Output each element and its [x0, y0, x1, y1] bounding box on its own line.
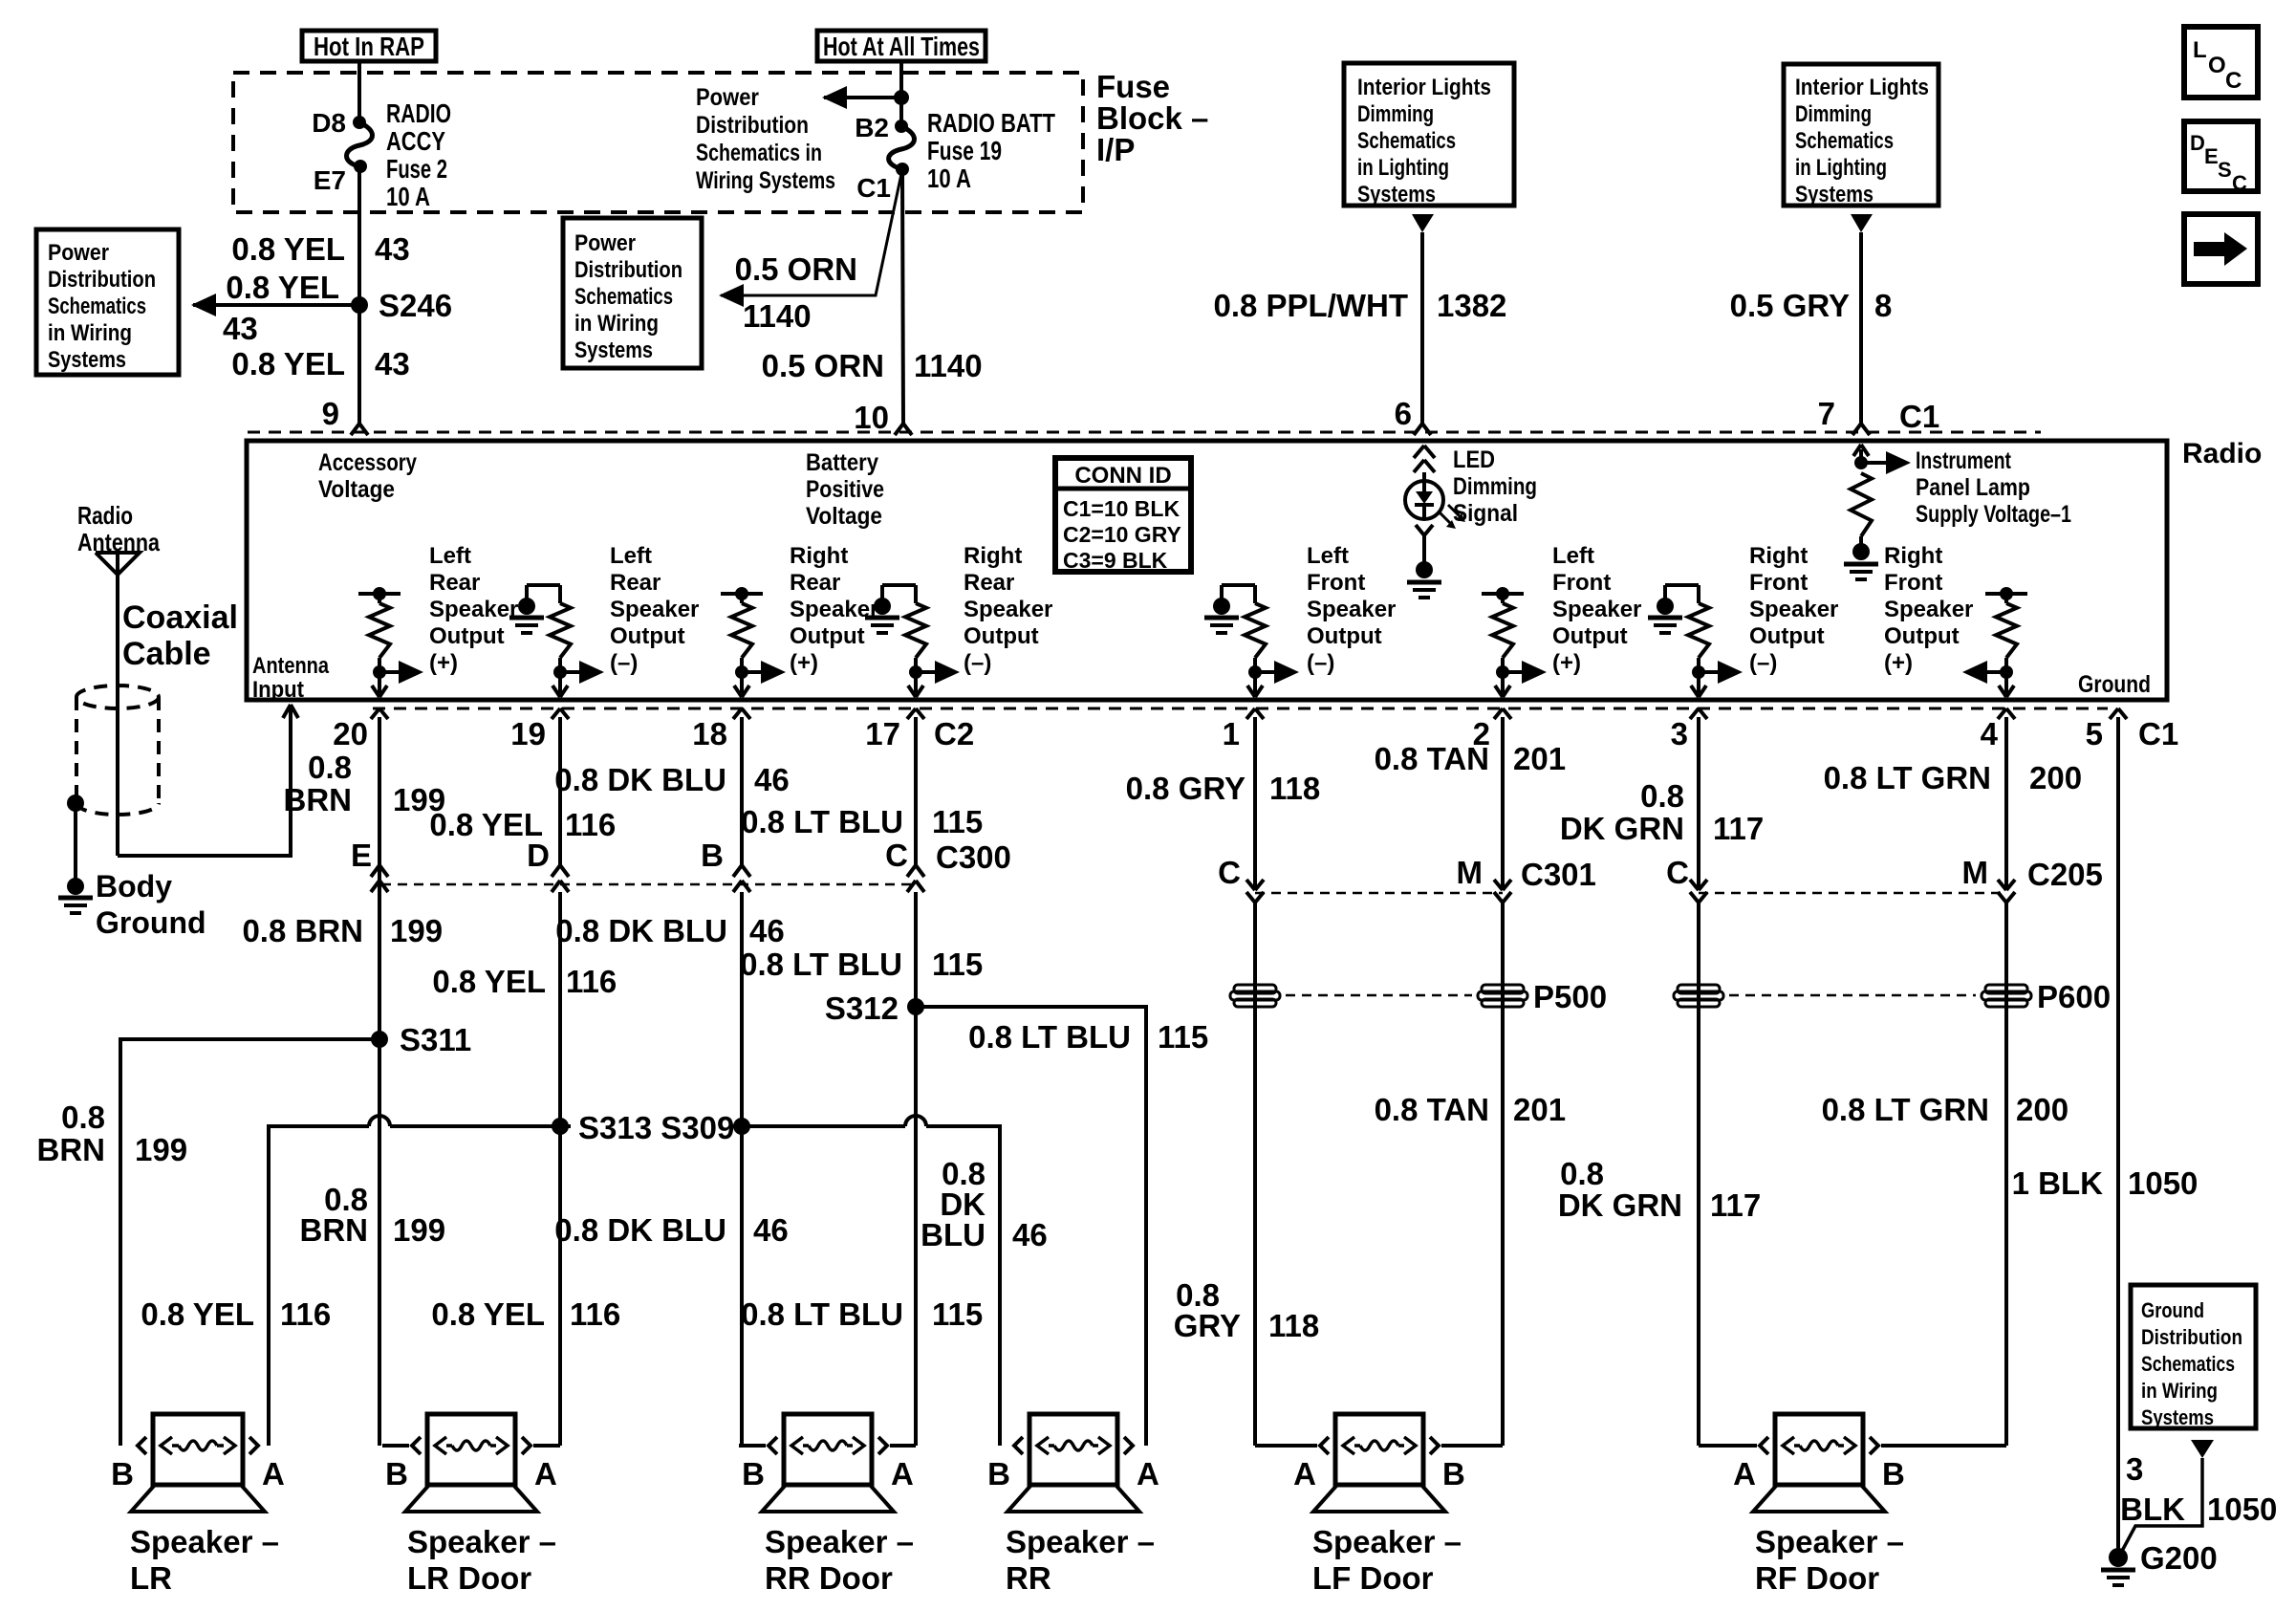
svg-text:Distribution: Distribution — [2141, 1325, 2242, 1349]
arrowhead 0.5 ORN branch — [719, 284, 744, 307]
svg-text:10 A: 10 A — [927, 163, 971, 193]
svg-text:(+): (+) — [790, 650, 818, 676]
wire S311 branch to speaker LR B — [120, 1039, 379, 1446]
svg-text:Fuse 2: Fuse 2 — [386, 154, 447, 184]
svg-text:0.8 GRY: 0.8 GRY — [1126, 771, 1245, 806]
svg-text:Front: Front — [1307, 570, 1365, 596]
svg-text:C1: C1 — [1899, 399, 1939, 434]
svg-text:0.8 DK BLU: 0.8 DK BLU — [555, 913, 727, 948]
svg-text:RF Door: RF Door — [1755, 1560, 1879, 1596]
svg-text:1: 1 — [1223, 716, 1240, 751]
svg-text:0.8 DK BLU: 0.8 DK BLU — [554, 1212, 726, 1248]
speaker RR — [1014, 1437, 1023, 1454]
svg-text:BRN: BRN — [284, 782, 353, 817]
grommet P500 dashed link — [1286, 994, 1472, 997]
arrowhead power distribution top — [822, 86, 847, 109]
svg-text:Output: Output — [429, 623, 505, 649]
resistor right rear speaker output + (pin 18) — [721, 592, 763, 596]
ground G200 symbol — [2101, 1568, 2135, 1573]
svg-text:Speaker: Speaker — [964, 597, 1052, 622]
radio bottom dashed connector line — [373, 708, 2108, 710]
svg-text:C1=10 BLK: C1=10 BLK — [1063, 496, 1180, 521]
svg-text:0.8 LT GRN: 0.8 LT GRN — [1824, 760, 1991, 795]
pin 6 connector chevron — [1414, 424, 1422, 435]
svg-text:RADIO BATT: RADIO BATT — [927, 108, 1055, 138]
body ground dot — [67, 878, 84, 895]
svg-text:115: 115 — [1158, 1019, 1208, 1055]
pin 7 connector chevron — [1852, 424, 1861, 435]
svg-text:Dimming: Dimming — [1357, 101, 1434, 127]
svg-text:E: E — [351, 838, 372, 873]
speaker RF Door — [1699, 1444, 1757, 1448]
svg-text:46: 46 — [1012, 1217, 1048, 1252]
svg-text:DK GRN: DK GRN — [1560, 811, 1684, 846]
connector C300 chevrons at terminal D — [552, 865, 560, 877]
svg-text:0.8 LT GRN: 0.8 LT GRN — [1822, 1092, 1989, 1127]
fuse F2 RADIO ACCY — [347, 122, 373, 166]
label box "Hot In RAP" — [302, 31, 436, 61]
svg-text:1140: 1140 — [914, 348, 983, 383]
svg-text:Rear: Rear — [790, 570, 840, 596]
svg-text:Output: Output — [1552, 623, 1628, 649]
svg-text:C: C — [885, 838, 908, 873]
legend box LOC — [2184, 27, 2258, 98]
svg-text:43: 43 — [375, 346, 410, 381]
svg-text:LR: LR — [130, 1560, 172, 1596]
svg-text:B: B — [385, 1456, 408, 1491]
wire pin 3 column (0.8 DK GRN 117) — [1697, 723, 1700, 890]
svg-text:Fuse: Fuse — [1096, 69, 1170, 104]
wire pin 17 column (0.8 LT BLU 115) — [914, 723, 918, 865]
svg-text:115: 115 — [932, 804, 983, 839]
pin 4 connector chevron (bottom) — [1998, 708, 2006, 719]
svg-text:43: 43 — [223, 311, 258, 346]
svg-text:116: 116 — [565, 807, 616, 842]
instrument panel lamp wire up arrow — [1859, 449, 1863, 463]
svg-text:C2: C2 — [934, 716, 974, 751]
splice S246 — [351, 296, 368, 314]
svg-text:A: A — [1733, 1456, 1756, 1491]
svg-text:Left: Left — [1552, 543, 1594, 569]
svg-text:C3=9 BLK: C3=9 BLK — [1063, 548, 1168, 573]
connector C300 chevrons at terminal E — [371, 865, 379, 877]
connector C300 dashed line — [381, 883, 916, 886]
speaker RR Door — [739, 1444, 766, 1448]
svg-text:0.8 YEL: 0.8 YEL — [431, 1296, 545, 1332]
box Ground Distribution Schematics in Wiring Systems — [2131, 1285, 2256, 1428]
svg-text:Rear: Rear — [610, 570, 661, 596]
svg-text:in Wiring: in Wiring — [2141, 1379, 2218, 1403]
svg-text:200: 200 — [2029, 760, 2082, 795]
instrument ground dot — [1859, 536, 1863, 545]
grommet P500 right (pin2) — [1482, 985, 1524, 993]
svg-text:116: 116 — [280, 1296, 331, 1332]
resistor right front speaker output - (pin 3) — [1697, 585, 1700, 603]
svg-text:P600: P600 — [2037, 979, 2111, 1014]
pin 2 connector chevron (bottom) — [1494, 708, 1503, 719]
svg-text:BLU: BLU — [921, 1217, 986, 1252]
wire pin 20 column (0.8 BRN 199) — [378, 723, 381, 1446]
svg-text:Cable: Cable — [122, 636, 211, 672]
svg-text:Speaker: Speaker — [429, 597, 518, 622]
node B2 — [895, 120, 908, 133]
svg-text:S311: S311 — [400, 1022, 471, 1057]
pin 20 connector chevron (bottom) — [371, 708, 379, 719]
svg-text:Radio: Radio — [2182, 438, 2262, 469]
svg-text:0.8 TAN: 0.8 TAN — [1375, 741, 1489, 776]
resistor instrument panel lamp — [1851, 473, 1872, 536]
svg-text:Interior Lights: Interior Lights — [1795, 75, 1929, 100]
grommet P500 left (pin1) — [1234, 985, 1276, 993]
svg-text:Voltage: Voltage — [806, 503, 882, 530]
svg-text:Hot In RAP: Hot In RAP — [314, 32, 424, 61]
svg-text:Schematics: Schematics — [574, 284, 673, 310]
svg-text:46: 46 — [754, 762, 790, 797]
svg-text:O: O — [2208, 53, 2226, 78]
pin 10 connector chevron — [895, 424, 903, 435]
svg-text:E: E — [2204, 144, 2219, 168]
svg-text:C301: C301 — [1521, 857, 1596, 892]
svg-text:Panel Lamp: Panel Lamp — [1916, 474, 2030, 501]
splice S309 — [733, 1118, 750, 1135]
svg-text:Speaker –: Speaker – — [130, 1524, 279, 1559]
svg-text:(–): (–) — [1307, 650, 1334, 676]
svg-text:Output: Output — [1307, 623, 1382, 649]
svg-text:M: M — [1457, 855, 1484, 890]
svg-text:Distribution: Distribution — [48, 267, 156, 293]
svg-text:Voltage: Voltage — [318, 476, 395, 503]
svg-text:in Lighting: in Lighting — [1357, 155, 1449, 181]
svg-text:Output: Output — [1749, 623, 1825, 649]
svg-text:1050: 1050 — [2128, 1165, 2198, 1201]
fuse block dashed outline — [233, 73, 1083, 212]
svg-text:Output: Output — [610, 623, 685, 649]
instrument junction dot — [1854, 456, 1868, 469]
svg-text:19: 19 — [510, 716, 546, 751]
triangle connector below left Interior Lights box — [1412, 214, 1434, 232]
svg-text:C: C — [2232, 171, 2247, 195]
wire Hot In RAP to fuse D8 — [357, 61, 361, 122]
svg-text:3: 3 — [1671, 716, 1688, 751]
svg-text:116: 116 — [570, 1296, 620, 1332]
svg-text:0.8 LT BLU: 0.8 LT BLU — [740, 947, 902, 982]
svg-text:(+): (+) — [1552, 650, 1581, 676]
svg-text:0.8 BRN: 0.8 BRN — [242, 913, 363, 948]
svg-text:8: 8 — [1874, 288, 1892, 323]
svg-text:Systems: Systems — [574, 337, 653, 363]
svg-text:Left: Left — [429, 543, 471, 569]
svg-text:ACCY: ACCY — [386, 126, 445, 156]
wire pin 1 column (0.8 GRY 118) — [1253, 723, 1257, 890]
svg-text:DK GRN: DK GRN — [1558, 1187, 1682, 1223]
svg-text:Distribution: Distribution — [696, 112, 809, 139]
svg-text:BRN: BRN — [300, 1212, 369, 1248]
svg-text:Systems: Systems — [1357, 182, 1436, 207]
wire E7 to radio pin 9 — [357, 166, 361, 424]
svg-text:Interior Lights: Interior Lights — [1357, 75, 1491, 100]
svg-text:118: 118 — [1269, 771, 1320, 806]
coax shield dashed cylinder — [76, 686, 159, 708]
svg-text:Accessory: Accessory — [318, 449, 417, 476]
connector C301 dashed line — [1255, 892, 1503, 895]
grommet P600 left (pin3) — [1678, 985, 1720, 993]
svg-text:199: 199 — [390, 913, 443, 948]
svg-text:Battery: Battery — [806, 449, 878, 476]
svg-text:Systems: Systems — [48, 347, 126, 373]
svg-text:0.8 LT BLU: 0.8 LT BLU — [741, 804, 903, 839]
svg-text:Ground: Ground — [2078, 671, 2151, 698]
svg-text:A: A — [891, 1456, 914, 1491]
svg-text:0.8 YEL: 0.8 YEL — [432, 964, 546, 999]
radio antenna symbol — [96, 553, 140, 575]
svg-text:Systems: Systems — [2141, 1405, 2214, 1429]
svg-text:S312: S312 — [825, 991, 899, 1026]
radio outline box — [247, 441, 2167, 700]
svg-text:(–): (–) — [610, 650, 638, 676]
svg-text:1382: 1382 — [1437, 288, 1506, 323]
svg-text:Speaker –: Speaker – — [1006, 1524, 1155, 1559]
svg-text:0.8: 0.8 — [1640, 778, 1684, 814]
grommet P600 dashed link — [1729, 994, 1976, 997]
svg-text:0.8 YEL: 0.8 YEL — [231, 231, 345, 267]
svg-text:Schematics: Schematics — [1357, 128, 1456, 154]
svg-text:118: 118 — [1268, 1308, 1319, 1343]
svg-text:Left: Left — [1307, 543, 1349, 569]
svg-text:0.8 PPL/WHT: 0.8 PPL/WHT — [1213, 288, 1408, 323]
svg-text:in Wiring: in Wiring — [574, 311, 659, 337]
connector C301 chevrons at terminal M — [1494, 880, 1503, 890]
svg-text:D8: D8 — [312, 108, 346, 138]
wire S246 branch to Power Distribution — [193, 303, 359, 307]
svg-text:B: B — [111, 1456, 134, 1491]
wire branch to power distribution (top) — [824, 96, 901, 99]
svg-text:(+): (+) — [429, 650, 458, 676]
grommet P600 right (pin4) — [1985, 985, 2027, 993]
svg-text:CONN ID: CONN ID — [1074, 463, 1171, 489]
legend box DESC — [2184, 121, 2258, 191]
svg-text:B: B — [1442, 1456, 1465, 1491]
svg-text:C: C — [1666, 855, 1689, 890]
svg-text:Positive: Positive — [806, 476, 884, 503]
svg-text:B: B — [1882, 1456, 1905, 1491]
svg-text:BRN: BRN — [37, 1132, 106, 1167]
box Interior Lights Dimming (left) — [1344, 63, 1514, 206]
svg-text:0.8 YEL: 0.8 YEL — [231, 346, 345, 381]
svg-text:Output: Output — [790, 623, 865, 649]
label box "Hot At All Times" — [817, 31, 986, 61]
LED D1 dimming indicator — [1405, 481, 1443, 519]
resistor right front speaker output + (pin 4) — [1985, 592, 2027, 596]
svg-text:LR Door: LR Door — [407, 1560, 531, 1596]
box Power Distribution Schematics in Wiring Systems (left) — [36, 229, 179, 375]
wire pin 6 to Interior Lights — [1420, 232, 1424, 424]
instrument ground — [1844, 562, 1878, 567]
table CONN ID — [1055, 458, 1191, 572]
svg-text:7: 7 — [1818, 396, 1835, 431]
svg-text:Schematics: Schematics — [2141, 1352, 2235, 1376]
svg-text:115: 115 — [932, 1296, 983, 1332]
resistor left rear speaker output - (pin 19) — [558, 585, 562, 603]
wire pin 4 column (0.8 LT GRN 200) — [2004, 723, 2008, 890]
box Power Distribution Schematics in Wiring Systems (middle) — [563, 218, 702, 368]
node E7 — [354, 160, 367, 173]
svg-text:A: A — [1293, 1456, 1316, 1491]
svg-text:Distribution: Distribution — [574, 257, 682, 283]
svg-text:G200: G200 — [2140, 1540, 2218, 1576]
svg-text:D: D — [2190, 131, 2205, 155]
svg-text:Antenna: Antenna — [252, 653, 330, 679]
triangle connector below right Interior Lights box — [1851, 214, 1873, 232]
svg-text:10: 10 — [854, 400, 889, 435]
svg-text:Rear: Rear — [429, 570, 480, 596]
instrument arrow right — [1861, 461, 1888, 465]
svg-text:LF Door: LF Door — [1312, 1560, 1434, 1596]
svg-text:9: 9 — [322, 396, 339, 431]
svg-text:Power: Power — [48, 240, 109, 266]
svg-text:C: C — [1218, 855, 1241, 890]
LED connector chevron — [1416, 525, 1424, 535]
splice S311 — [371, 1031, 388, 1048]
triangle connector below Ground Distribution box — [2191, 1440, 2214, 1458]
svg-text:Power: Power — [696, 84, 759, 111]
svg-text:Output: Output — [964, 623, 1039, 649]
svg-text:5: 5 — [2086, 716, 2103, 751]
svg-text:Signal: Signal — [1453, 500, 1518, 527]
svg-text:Ground: Ground — [2141, 1298, 2204, 1322]
svg-text:43: 43 — [375, 231, 410, 267]
svg-text:0.8 YEL: 0.8 YEL — [141, 1296, 254, 1332]
svg-text:Wiring Systems: Wiring Systems — [696, 167, 835, 194]
svg-text:BLK: BLK — [2120, 1491, 2185, 1527]
svg-text:Block –: Block – — [1096, 100, 1208, 136]
node D8 — [353, 116, 366, 129]
svg-text:20: 20 — [333, 716, 368, 751]
svg-text:3: 3 — [2126, 1451, 2143, 1487]
svg-text:1 BLK: 1 BLK — [2012, 1165, 2104, 1201]
wire Ground Distribution to G200 — [2121, 1458, 2202, 1553]
svg-text:Speaker –: Speaker – — [407, 1524, 556, 1559]
svg-text:Instrument: Instrument — [1916, 447, 2012, 474]
svg-text:Speaker –: Speaker – — [1755, 1524, 1904, 1559]
svg-text:18: 18 — [692, 716, 727, 751]
wire speaker LR A to splices S313 S309 and speaker RR B — [269, 1126, 369, 1446]
fuse F19 RADIO BATT — [889, 126, 915, 169]
pin 1 connector chevron (bottom) — [1246, 708, 1255, 719]
legend box arrow — [2184, 214, 2258, 284]
svg-text:0.5 ORN: 0.5 ORN — [762, 348, 884, 383]
svg-text:117: 117 — [1710, 1187, 1761, 1223]
box Interior Lights Dimming (right) — [1784, 64, 1939, 206]
ground G200 dot — [2109, 1548, 2128, 1567]
connector C300 chevrons at terminal B — [733, 865, 742, 877]
arrowhead to Power Distribution box — [191, 294, 216, 316]
svg-text:Schematics: Schematics — [1795, 128, 1894, 154]
LED light rays — [1439, 512, 1452, 525]
svg-text:Rear: Rear — [964, 570, 1014, 596]
svg-text:Coaxial: Coaxial — [122, 599, 238, 636]
svg-text:10 A: 10 A — [386, 182, 430, 211]
svg-text:I/P: I/P — [1096, 132, 1135, 167]
pin 3 connector chevron (bottom) — [1690, 708, 1699, 719]
resistor left front speaker output - (pin 1) — [1253, 585, 1257, 603]
harness dashed line above radio — [248, 431, 2041, 434]
svg-text:Right: Right — [964, 543, 1022, 569]
svg-text:(–): (–) — [1749, 650, 1777, 676]
speaker LR Door — [382, 1444, 409, 1448]
svg-text:115: 115 — [932, 947, 983, 982]
svg-text:0.5 GRY: 0.5 GRY — [1730, 288, 1850, 323]
svg-text:Speaker –: Speaker – — [765, 1524, 914, 1559]
svg-text:Dimming: Dimming — [1795, 101, 1872, 127]
svg-text:Dimming: Dimming — [1453, 473, 1537, 500]
svg-text:C2=10 GRY: C2=10 GRY — [1063, 522, 1181, 547]
svg-text:0.8 YEL: 0.8 YEL — [226, 270, 339, 305]
svg-text:A: A — [534, 1456, 557, 1491]
svg-text:RR: RR — [1006, 1560, 1051, 1596]
svg-text:Schematics in: Schematics in — [696, 140, 822, 166]
svg-text:A: A — [1137, 1456, 1159, 1491]
svg-text:201: 201 — [1513, 1092, 1566, 1127]
svg-text:0.8 LT BLU: 0.8 LT BLU — [968, 1019, 1131, 1055]
wire coax to radio antenna input — [118, 708, 291, 856]
connector C205 dashed line — [1699, 892, 2006, 895]
wire shield to body ground — [74, 803, 77, 880]
svg-text:Speaker: Speaker — [1884, 597, 1973, 622]
svg-text:0.8 LT BLU: 0.8 LT BLU — [741, 1296, 903, 1332]
svg-text:199: 199 — [135, 1132, 187, 1167]
svg-text:C300: C300 — [936, 839, 1011, 875]
svg-text:17: 17 — [865, 716, 900, 751]
svg-text:B: B — [987, 1456, 1010, 1491]
svg-text:0.8 DK BLU: 0.8 DK BLU — [554, 762, 726, 797]
wire pin 7 to Interior Lights — [1859, 232, 1863, 424]
svg-text:C1: C1 — [2138, 716, 2178, 751]
wire 0.5 ORN branch from C1 — [721, 169, 902, 295]
svg-text:C1: C1 — [856, 173, 891, 203]
svg-text:Speaker –: Speaker – — [1312, 1524, 1462, 1559]
svg-text:1140: 1140 — [743, 298, 812, 334]
svg-text:C205: C205 — [2027, 857, 2103, 892]
svg-text:4: 4 — [1981, 716, 1999, 751]
svg-text:D: D — [527, 838, 550, 873]
svg-text:(+): (+) — [1884, 650, 1913, 676]
connector C205 chevrons at terminal M — [1998, 880, 2006, 890]
svg-text:201: 201 — [1513, 741, 1566, 776]
svg-text:L: L — [2193, 37, 2207, 63]
svg-text:Power: Power — [574, 230, 636, 256]
pin 9 connector chevron — [351, 424, 359, 435]
wire antenna mast / coaxial cable — [116, 575, 119, 856]
svg-text:LED: LED — [1453, 446, 1495, 473]
body ground symbol — [58, 896, 93, 901]
wire C1 to radio pin 10 — [902, 169, 903, 424]
svg-text:46: 46 — [753, 1212, 789, 1248]
svg-text:117: 117 — [1713, 811, 1764, 846]
LED dimming signal arrows up — [1414, 446, 1424, 458]
svg-text:Fuse 19: Fuse 19 — [927, 136, 1002, 165]
svg-text:Body: Body — [96, 869, 172, 903]
resistor left rear speaker output + (pin 20) — [358, 592, 401, 596]
wire pin 18 column (0.8 DK BLU 46) — [740, 723, 744, 865]
svg-text:B2: B2 — [855, 113, 889, 142]
svg-text:Speaker: Speaker — [1307, 597, 1396, 622]
svg-text:Schematics: Schematics — [48, 294, 146, 319]
pin 5 connector chevron (bottom) — [2110, 708, 2118, 719]
svg-text:Right: Right — [790, 543, 848, 569]
svg-text:200: 200 — [2016, 1092, 2069, 1127]
svg-text:Front: Front — [1884, 570, 1942, 596]
connector C301 chevrons at terminal C — [1246, 880, 1255, 890]
